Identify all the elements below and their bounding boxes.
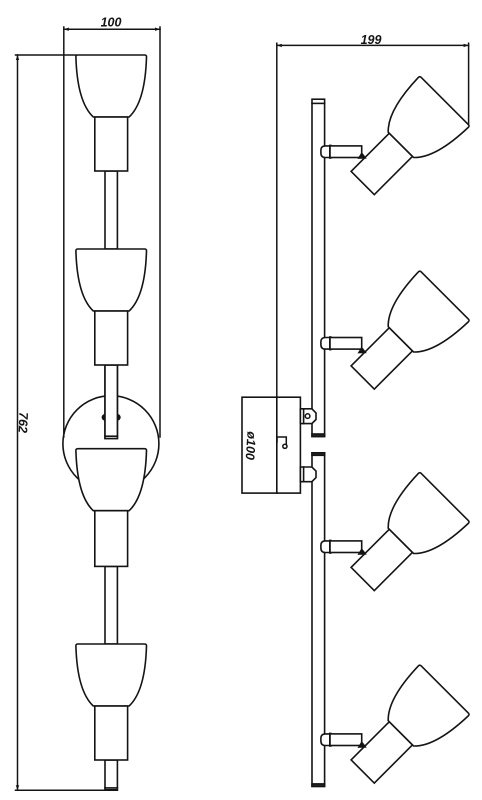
spot 2 pivot wedge	[358, 347, 367, 354]
spot 1 pivot wedge	[358, 152, 367, 159]
spot 3 arm cap	[321, 541, 330, 553]
svg-text:ø100: ø100	[243, 431, 259, 460]
box divider / ceiling plane	[276, 397, 278, 493]
cable hook symbol	[277, 437, 286, 445]
stem 2	[105, 365, 117, 439]
holder 1	[95, 117, 128, 171]
dim 100 line	[64, 27, 160, 437]
pivot ear left	[102, 414, 109, 421]
dim 762 line	[16, 55, 118, 790]
pivot ear right	[114, 414, 121, 421]
canopy circle	[63, 396, 159, 492]
spot 2 head	[338, 271, 470, 403]
dim 199 arrows	[277, 44, 469, 47]
stem 2 end cap	[105, 435, 117, 437]
holder 3	[95, 511, 128, 567]
spot 3 arm body	[330, 541, 362, 553]
spot 2 arm cap	[321, 338, 330, 350]
dim 762 arrows	[16, 55, 19, 790]
spot 4 head	[338, 665, 470, 797]
shade 3	[76, 449, 147, 511]
spot 1 head	[338, 76, 470, 208]
bar segment 2	[312, 453, 325, 787]
stem 3	[105, 566, 117, 644]
shade 1	[76, 55, 147, 117]
holder 2	[95, 311, 128, 365]
bar seg1 top cap line	[312, 102, 325, 104]
bar segment 1	[312, 99, 325, 436]
svg-text:199: 199	[361, 33, 382, 47]
stem 4	[105, 760, 117, 790]
stem 1	[105, 171, 117, 249]
lower tab	[300, 467, 316, 482]
upper tab	[300, 409, 316, 424]
holder 4	[95, 706, 128, 760]
stem 2 over circle	[105, 365, 117, 439]
spot 1 arm cap	[321, 146, 330, 158]
spot 3 head	[338, 472, 470, 604]
svg-text:762: 762	[15, 412, 30, 434]
spot 4 arm body	[330, 734, 362, 746]
svg-text:100: 100	[101, 16, 122, 30]
spot 2 arm body	[330, 338, 362, 350]
bar seg1 bottom cap	[312, 434, 325, 437]
bar seg2 top cap	[312, 453, 325, 456]
spot 4 arm cap	[321, 734, 330, 746]
dim 100 arrows	[64, 28, 160, 31]
dim 199 line	[277, 43, 469, 397]
spot 4 pivot wedge	[358, 741, 367, 748]
mounting box	[242, 397, 300, 493]
shade 2	[76, 249, 147, 311]
shade 4	[76, 644, 147, 706]
bar seg2 bottom cap	[312, 784, 325, 787]
spot 3 pivot wedge	[358, 548, 367, 555]
spot 1 arm body	[330, 146, 362, 158]
